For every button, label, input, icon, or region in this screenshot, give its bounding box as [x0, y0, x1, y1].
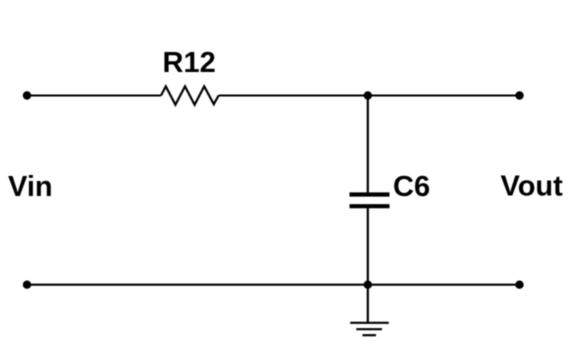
svg-text:C6: C6: [393, 171, 430, 203]
svg-text:Vin: Vin: [8, 171, 53, 203]
svg-text:R12: R12: [163, 47, 216, 79]
svg-text:Vout: Vout: [501, 171, 564, 203]
